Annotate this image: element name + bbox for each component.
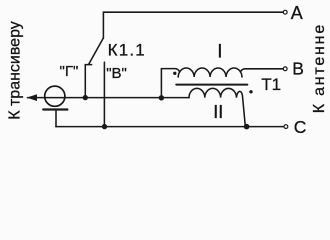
transformer T1 winding I bbox=[178, 68, 242, 77]
connector circle XW1 bbox=[45, 86, 65, 106]
relay contact post В bbox=[103, 62, 105, 126]
relay contact post Г bbox=[85, 65, 91, 98]
transformer core bbox=[176, 84, 247, 86]
svg-text:В: В bbox=[292, 59, 304, 79]
svg-text:II: II bbox=[213, 102, 223, 122]
phase dot winding II bbox=[249, 90, 252, 93]
connector ground bar bbox=[43, 108, 67, 110]
transformer T1 winding I lead wire left bbox=[161, 69, 179, 98]
svg-text:К1.1: К1.1 bbox=[108, 41, 146, 60]
svg-text:"Г": "Г" bbox=[60, 63, 79, 80]
terminal B circle bbox=[283, 67, 287, 71]
svg-text:К трансиверу: К трансиверу bbox=[7, 21, 24, 120]
wire mid horizontal bbox=[28, 97, 190, 99]
terminal C circle bbox=[284, 125, 288, 129]
arrow to transceiver bbox=[27, 94, 37, 101]
junction node Г/mid wire bbox=[83, 95, 88, 100]
svg-text:С: С bbox=[294, 117, 307, 137]
junction node В/bottom wire bbox=[102, 124, 107, 129]
wire top to A bbox=[103, 12, 283, 38]
svg-text:А: А bbox=[291, 3, 303, 23]
svg-text:К антенне: К антенне bbox=[311, 23, 328, 113]
wire bottom to C bbox=[56, 126, 284, 128]
wire winding I to B bbox=[240, 69, 283, 72]
junction node winding II/bottom wire bbox=[244, 124, 250, 130]
svg-text:I: I bbox=[217, 42, 222, 63]
svg-text:Т1: Т1 bbox=[261, 75, 281, 94]
phase dot winding I bbox=[173, 72, 176, 75]
svg-text:"В": "В" bbox=[106, 65, 127, 82]
terminal A circle bbox=[283, 10, 287, 14]
junction node winding I lead bbox=[159, 95, 164, 100]
relay K1.1 moving arm bbox=[89, 38, 104, 64]
transformer T1 winding II bbox=[189, 88, 245, 125]
connector stem wire bbox=[55, 110, 57, 127]
